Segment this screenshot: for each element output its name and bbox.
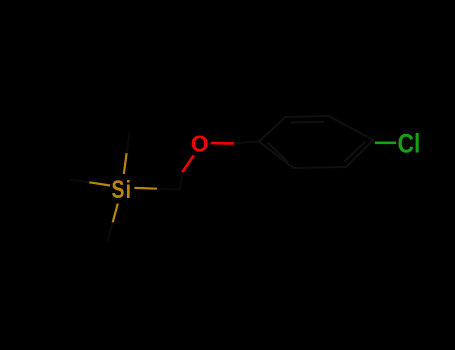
benzene ring C6H4 (dark carbon strokes): [259, 116, 374, 168]
bond CH2-O (O half, red diagonal): [182, 155, 194, 172]
bond C(ring)-Cl (Cl half, green): [375, 141, 396, 144]
wire: C(ring)-O bond carbon half (dark): [234, 142, 259, 144]
bond Si-CH3 left (Si half, goldenrod): [89, 182, 110, 185]
bond O-C(ring) (O half, red horizontal): [211, 142, 234, 145]
wire: Si-CH3 up bond carbon half (dark): [127, 132, 130, 153]
bond Si-CH2 (Si half, goldenrod): [134, 187, 157, 190]
wire: Si-CH3 left bond carbon half (dark): [69, 179, 90, 182]
bond Si-CH3 up (Si half, goldenrod): [124, 153, 127, 174]
svg-text:O: O: [191, 130, 209, 156]
wire: Si-CH2 bond carbon half (dark): [157, 188, 180, 191]
svg-text:Si: Si: [112, 176, 133, 204]
bond Si-CH3 down (Si half, goldenrod): [113, 204, 118, 223]
svg-text:Cl: Cl: [397, 130, 420, 159]
wire: CH2-O bond carbon half (dark): [179, 172, 183, 190]
wire: Si-CH3 down bond carbon half (dark): [108, 222, 113, 241]
